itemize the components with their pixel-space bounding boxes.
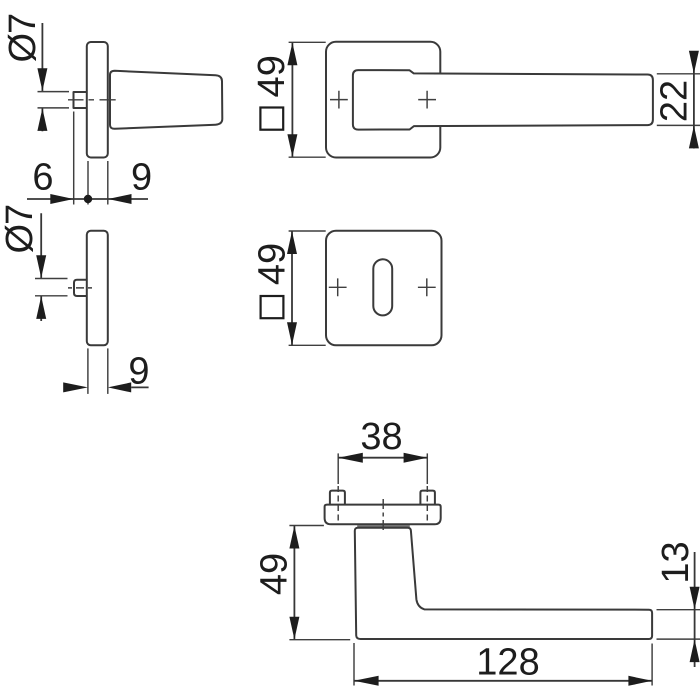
square symbol bbox=[260, 108, 283, 130]
arrow down bbox=[287, 134, 297, 157]
square symbol bbox=[261, 296, 284, 318]
svg-text:13: 13 bbox=[655, 541, 697, 583]
ext line 49 bottom bbox=[289, 344, 326, 346]
ext line 49 top bbox=[289, 41, 326, 43]
rose side view bbox=[87, 42, 108, 158]
svg-text:49: 49 bbox=[251, 55, 293, 97]
svg-text:9: 9 bbox=[131, 157, 152, 199]
key rosette square bbox=[326, 231, 442, 346]
arrow right (9) bbox=[63, 382, 88, 392]
arrow down (22) bbox=[689, 51, 699, 74]
screw post right bbox=[420, 491, 435, 505]
centerline A bbox=[68, 99, 116, 101]
arrow down bbox=[36, 255, 46, 278]
post centerline right dashed bbox=[426, 486, 428, 521]
arrow left (38) bbox=[338, 453, 363, 463]
arrow left (128) bbox=[354, 676, 379, 686]
lever top view (neck + bar) bbox=[355, 528, 652, 639]
dim Ø7 line bottom bbox=[40, 296, 42, 321]
dim line 49 bbox=[291, 42, 293, 157]
svg-text:Ø7: Ø7 bbox=[2, 14, 44, 63]
arrow up (22) bbox=[689, 126, 699, 149]
post centerline right bbox=[426, 453, 428, 484]
svg-text:9: 9 bbox=[128, 351, 149, 393]
dim line 49 bbox=[291, 231, 293, 345]
arrow down bbox=[37, 68, 47, 91]
ext line Ø7 top bbox=[35, 278, 68, 280]
svg-text:Ø7: Ø7 bbox=[0, 205, 41, 254]
screw mark right bbox=[418, 91, 436, 109]
dim line 38 bbox=[338, 457, 427, 459]
ext line 6 left bbox=[73, 112, 75, 205]
dim tail right bbox=[131, 386, 148, 388]
ext line 13 top bbox=[657, 609, 700, 611]
svg-text:22: 22 bbox=[654, 80, 696, 122]
ext line 49 bottom bbox=[289, 156, 326, 158]
ext line 9 right bbox=[107, 161, 109, 205]
ext line 9 left bbox=[87, 348, 89, 394]
ext line Ø7 bottom bbox=[35, 295, 68, 297]
arrow left with tail (9) bbox=[108, 382, 131, 392]
svg-text:49: 49 bbox=[254, 553, 296, 595]
rose top view bbox=[325, 505, 441, 525]
dim line 13 bbox=[694, 552, 696, 667]
svg-text:128: 128 bbox=[476, 642, 539, 684]
rosette square bbox=[326, 42, 440, 158]
screw mark right bbox=[418, 278, 436, 296]
ext line 13 bottom bbox=[657, 638, 700, 640]
arrow down (49) bbox=[289, 617, 299, 640]
arrow up bbox=[287, 43, 297, 66]
dim Ø7 line bottom bbox=[41, 108, 43, 131]
svg-text:38: 38 bbox=[360, 416, 402, 458]
dim line 22 bbox=[693, 52, 695, 149]
arrow up (13) bbox=[690, 639, 700, 662]
svg-text:6: 6 bbox=[32, 157, 53, 199]
arrow down (13) bbox=[690, 587, 700, 610]
ext line 22 top bbox=[657, 73, 700, 75]
ext line 6/9 middle bbox=[87, 161, 89, 205]
arrow down bbox=[287, 322, 297, 345]
dim Ø7 line top bbox=[40, 213, 42, 278]
centerline B bbox=[68, 287, 93, 289]
center dash line bbox=[382, 499, 384, 533]
key rose side view bbox=[87, 231, 108, 346]
dim line 6-9 bbox=[27, 198, 148, 200]
spindle square bbox=[74, 92, 88, 108]
svg-text:49: 49 bbox=[252, 243, 294, 285]
dim line 128 bbox=[354, 680, 652, 682]
lever (neck + bar) bbox=[353, 70, 653, 130]
ext line 128 left bbox=[353, 643, 355, 686]
ext line 9 right bbox=[107, 348, 109, 394]
post centerline left bbox=[337, 453, 339, 484]
dim line 49 bbox=[293, 526, 295, 640]
post centerline left dashed bbox=[337, 486, 339, 521]
arrow right (6) bbox=[50, 194, 73, 204]
arrow up bbox=[36, 296, 46, 319]
arrow up bbox=[37, 108, 47, 131]
bearing strip bbox=[357, 525, 410, 527]
cylinder stub bbox=[74, 280, 87, 296]
arrow right (128) bbox=[628, 676, 652, 686]
arrow left (9) bbox=[108, 194, 132, 204]
screw mark left bbox=[330, 91, 348, 109]
ext line 49 top bbox=[289, 230, 326, 232]
screw post left bbox=[330, 491, 345, 505]
arrow up bbox=[287, 231, 297, 254]
handle grip side view bbox=[110, 71, 222, 129]
ext line Ø7 bottom bbox=[38, 107, 70, 109]
ext line 49 bottom bbox=[289, 639, 350, 641]
ext line Ø7 top bbox=[38, 91, 70, 93]
arrow right (38) bbox=[404, 453, 428, 463]
keyhole bbox=[373, 259, 392, 315]
screw mark left bbox=[329, 278, 347, 296]
dim Ø7 line top bbox=[41, 23, 43, 91]
arrow up (49) bbox=[289, 526, 299, 549]
ext line 22 bottom bbox=[657, 124, 700, 126]
junction dot bbox=[84, 195, 92, 203]
ext line 49 top bbox=[289, 525, 324, 527]
ext line 128 right bbox=[651, 644, 653, 686]
